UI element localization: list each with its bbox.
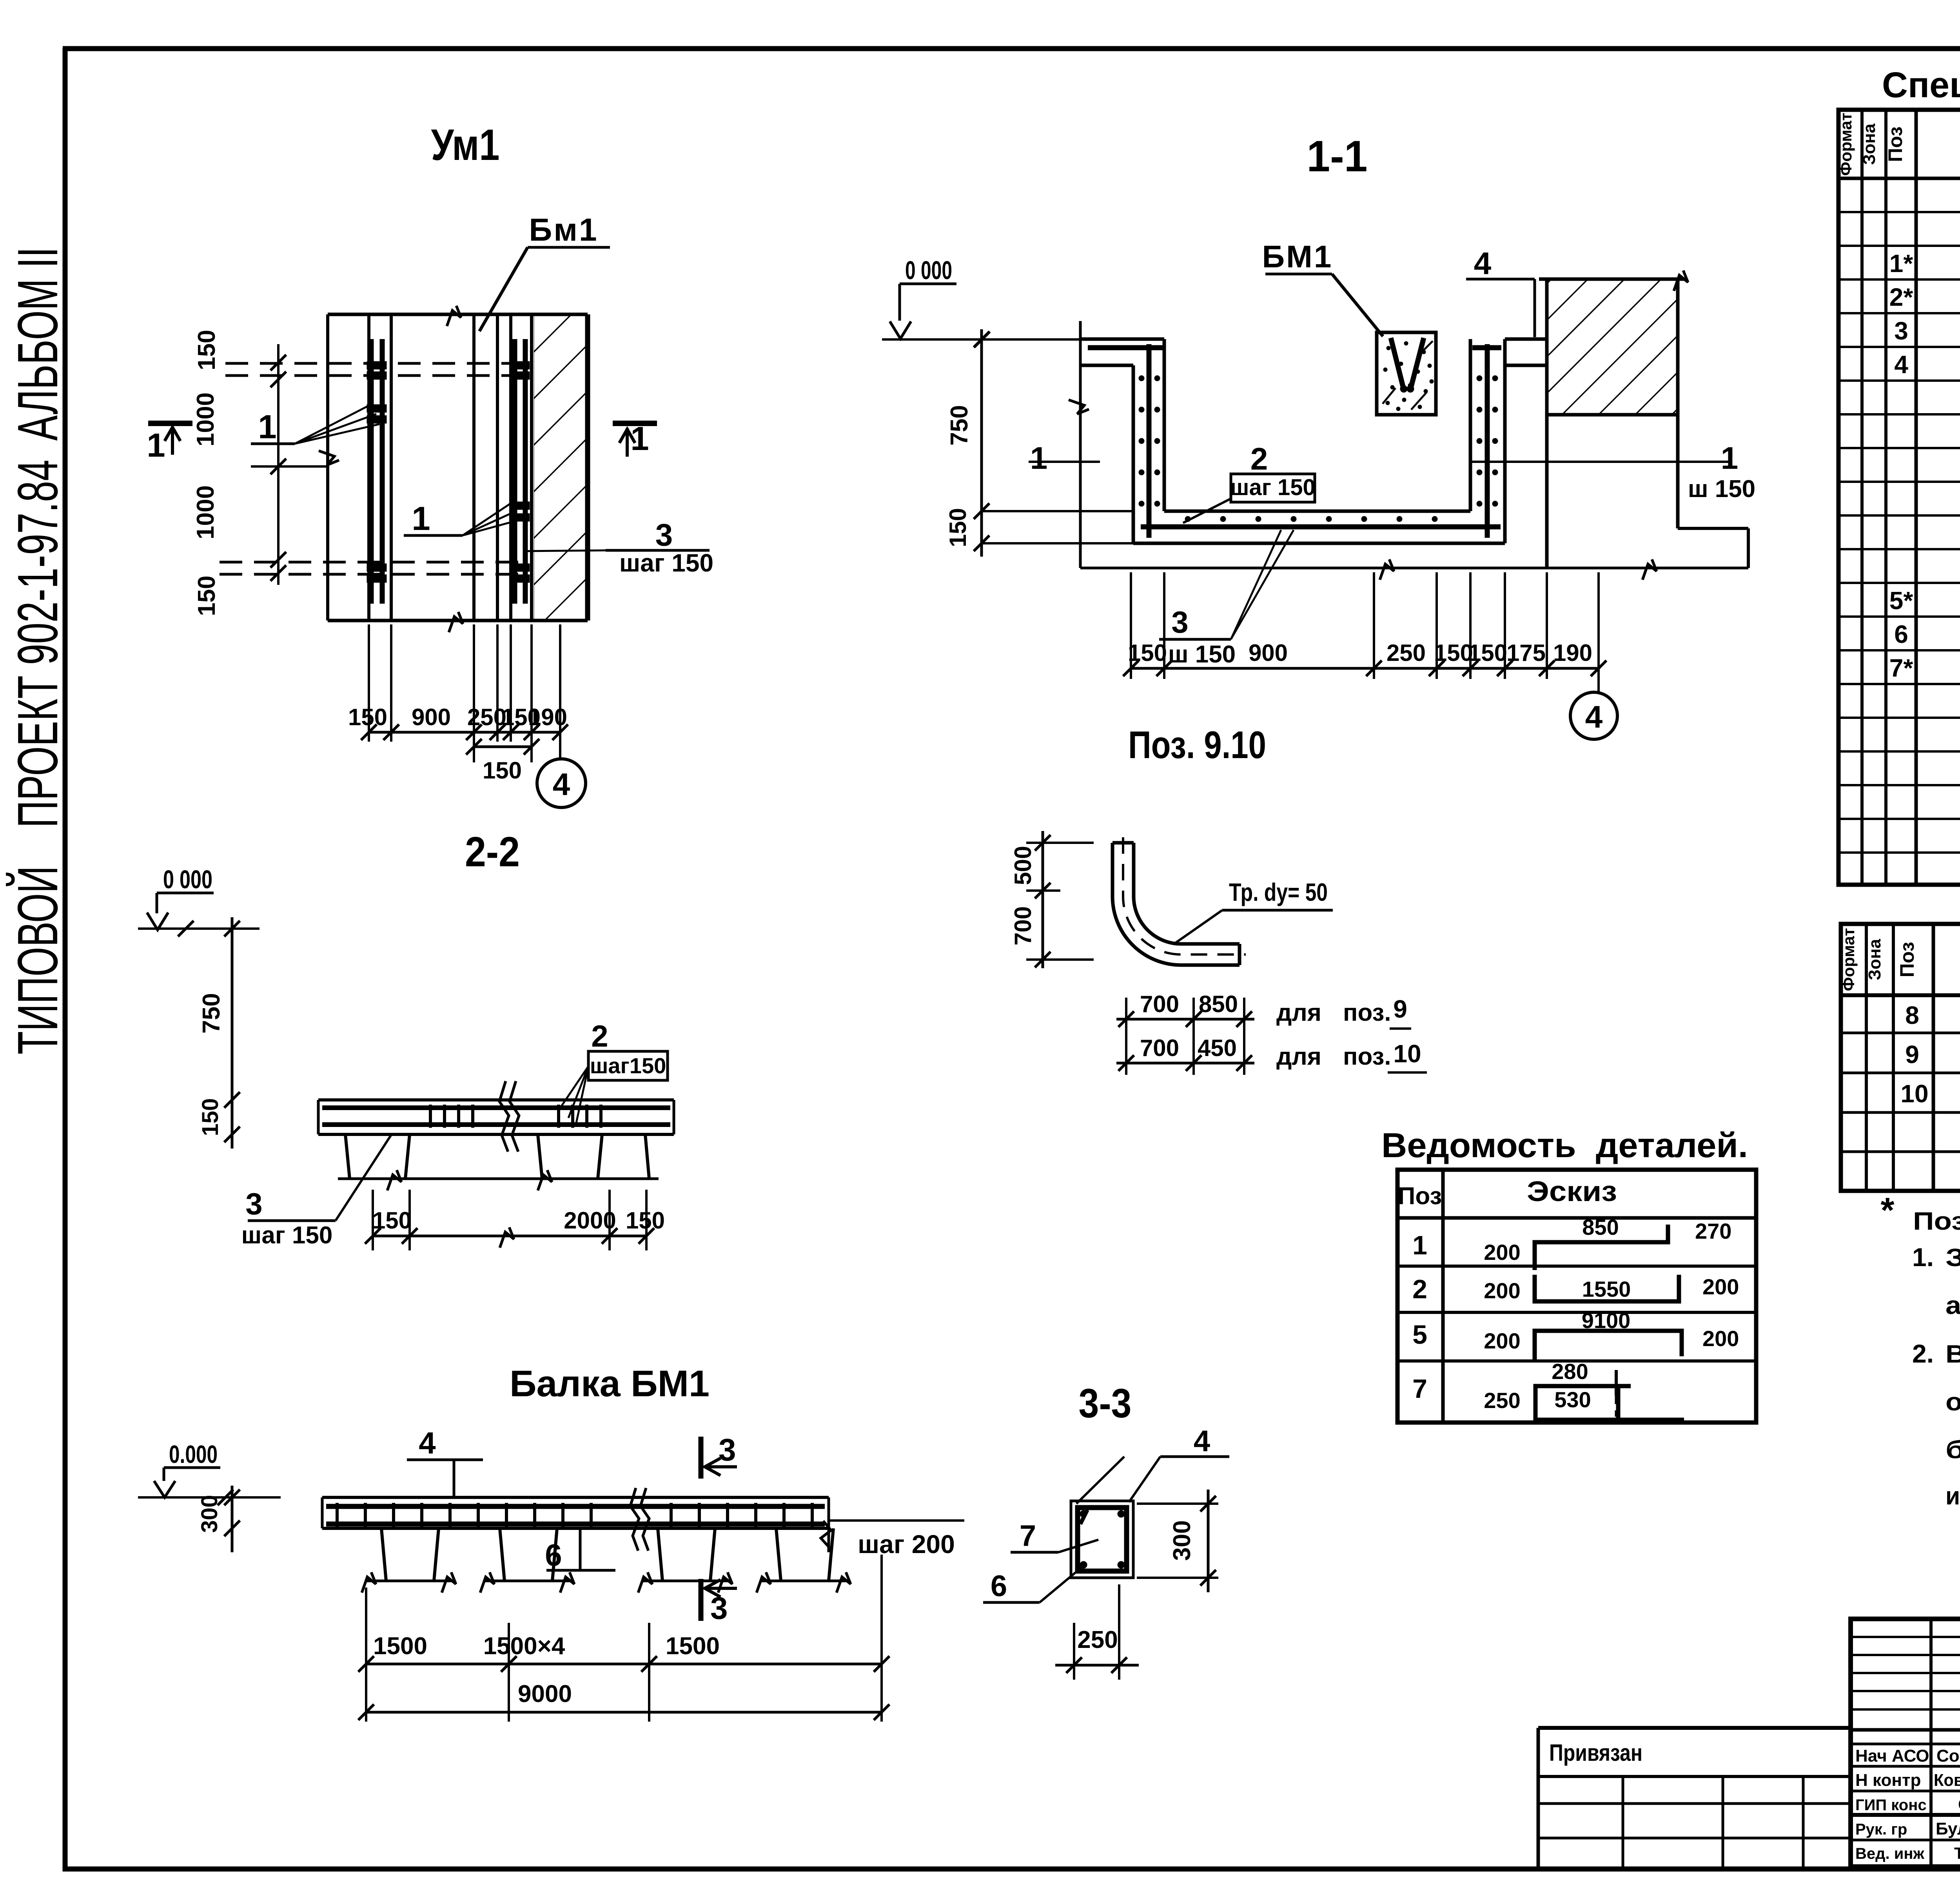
svg-text:150: 150	[193, 330, 220, 370]
svg-text:ш 150: ш 150	[1168, 641, 1236, 668]
svg-text:7: 7	[1020, 1519, 1036, 1553]
svg-text:150: 150	[1128, 640, 1167, 666]
svg-text:Защитный слой бетона для: Защитный слой бетона для рабочей	[1945, 1243, 1960, 1272]
svg-text:10: 10	[1900, 1080, 1928, 1108]
1-1 excavation bottom line	[1080, 567, 1748, 570]
svg-text:1: 1	[412, 500, 430, 537]
Um1 bottom dimension chain 150/900/250/150/190	[368, 624, 370, 742]
svg-text:Ковалинина: Ковалинина	[1934, 1771, 1960, 1790]
svg-text:1500×4: 1500×4	[483, 1633, 565, 1660]
svg-text:200: 200	[1484, 1240, 1520, 1265]
svg-text:200: 200	[1484, 1328, 1520, 1353]
2-2 rebar tie marks	[429, 1105, 432, 1128]
1-1 bottom dimension chain 150/900/250/150/150/175/190	[1130, 572, 1132, 679]
svg-text:Внутреннюю поверхность уча: Внутреннюю поверхность участка УМ1	[1945, 1340, 1960, 1368]
svg-text:Нач АСО: Нач АСО	[1855, 1746, 1929, 1766]
svg-text:200: 200	[1702, 1274, 1739, 1299]
1-1 wall rebar left (pos.1/2)	[1147, 344, 1152, 538]
title block outer frame	[1851, 1619, 1960, 1867]
pipe elbow outline (Tr dy=50)	[1112, 843, 1240, 965]
svg-text:150: 150	[945, 508, 971, 547]
svg-text:7*: 7*	[1889, 654, 1913, 682]
svg-text:ш 150: ш 150	[1688, 475, 1755, 503]
svg-text:Привязан: Привязан	[1549, 1740, 1642, 1766]
beam left dim 300	[231, 1486, 234, 1552]
svg-text:3: 3	[245, 1187, 262, 1221]
svg-text:2-2: 2-2	[465, 828, 520, 875]
Um1 rebar pair left (pos.1)	[369, 339, 374, 604]
svg-text:3: 3	[710, 1591, 728, 1626]
svg-text:шаг 150: шаг 150	[619, 549, 713, 577]
pipe bottom dim row for poz 9	[1125, 998, 1127, 1075]
1-1 section trace line 1...1	[1029, 461, 1100, 463]
svg-text:250: 250	[1387, 640, 1426, 666]
svg-text:1000: 1000	[192, 485, 219, 539]
svg-text:150: 150	[1434, 640, 1473, 666]
Um1 section mark 1 right	[613, 421, 657, 426]
svg-text:4: 4	[553, 767, 570, 802]
svg-text:250: 250	[467, 704, 506, 730]
svg-text:0 000: 0 000	[905, 256, 952, 285]
svg-text:150: 150	[372, 1207, 412, 1234]
beam section mark 3 lower	[699, 1579, 704, 1621]
svg-text:270: 270	[1695, 1219, 1731, 1243]
svg-text:850: 850	[1582, 1215, 1619, 1239]
svg-text:шаг 150: шаг 150	[241, 1222, 333, 1249]
1-1 beam anchor bars	[1391, 338, 1403, 388]
svg-text:1: 1	[147, 427, 165, 464]
svg-text:300: 300	[1169, 1520, 1196, 1560]
3-3 stirrup pos.7	[1078, 1508, 1127, 1571]
svg-text:9: 9	[1393, 995, 1407, 1023]
Um1 plan outline	[328, 313, 588, 316]
svg-text:поз.: поз.	[1343, 1043, 1391, 1070]
svg-text:3-3: 3-3	[1079, 1381, 1132, 1426]
spec table 2 frame	[1841, 924, 1960, 1191]
svg-text:Балка БМ1: Балка БМ1	[510, 1363, 710, 1404]
svg-text:для: для	[1276, 1043, 1321, 1070]
svg-text:6: 6	[545, 1538, 562, 1572]
1-1 left dimension 750/150	[980, 329, 983, 557]
svg-text:150: 150	[483, 757, 522, 784]
svg-text:шаг 200: шаг 200	[858, 1530, 955, 1559]
1-1 left break line	[1079, 321, 1082, 568]
svg-text:Вед. инж: Вед. инж	[1855, 1845, 1925, 1862]
3-3 dim 250	[1073, 1623, 1075, 1680]
svg-text:изоляции 3 м: изоляции 3 м	[1945, 1482, 1960, 1510]
svg-text:900: 900	[1249, 640, 1288, 666]
svg-text:2: 2	[591, 1019, 608, 1053]
svg-text:арматуры 25 мм.: арматуры 25 мм.	[1945, 1291, 1960, 1319]
svg-text:190: 190	[528, 704, 567, 730]
3-3 dim 300	[1137, 1502, 1218, 1505]
svg-text:2: 2	[1412, 1274, 1427, 1304]
svg-text:750: 750	[198, 993, 225, 1033]
2-2 left dimension 750/150	[231, 917, 234, 1149]
title block signature column lines	[1929, 1619, 1933, 1867]
beam end break mark	[821, 1521, 831, 1548]
svg-text:Формат: Формат	[1839, 928, 1858, 991]
svg-text:150: 150	[193, 575, 220, 616]
svg-text:700: 700	[1140, 991, 1179, 1017]
svg-text:9000: 9000	[518, 1680, 572, 1707]
svg-text:7: 7	[1412, 1374, 1427, 1404]
svg-text:ГИП конс: ГИП конс	[1855, 1796, 1927, 1814]
beam dims 1500/1500x4/1500 and 9000	[365, 1623, 367, 1722]
svg-text:250: 250	[1484, 1388, 1520, 1413]
svg-text:4: 4	[1474, 246, 1492, 281]
svg-text:Булатова: Булатова	[1936, 1819, 1960, 1838]
svg-text:Бм1: Бм1	[529, 212, 598, 248]
svg-text:Формат: Формат	[1837, 113, 1855, 176]
beam rib stubs	[381, 1528, 439, 1581]
page frame left border	[63, 48, 68, 1871]
svg-text:Эскиз: Эскиз	[1527, 1176, 1617, 1207]
Um1 sub dimension 150	[473, 742, 475, 762]
svg-text:150: 150	[626, 1207, 665, 1234]
page frame bottom border	[63, 1867, 1960, 1872]
svg-text:Зона: Зона	[1865, 939, 1884, 980]
svg-text:Ум1: Ум1	[431, 120, 500, 169]
2-2 slab rebar lines (pos.2/3)	[322, 1105, 670, 1110]
Um1 dashed slab edge lines (top)	[225, 362, 532, 365]
svg-text:4: 4	[1585, 699, 1603, 734]
pipe elbow dashed centreline	[1123, 837, 1246, 954]
svg-text:Тр. dу= 50: Тр. dу= 50	[1229, 878, 1328, 906]
svg-text:175: 175	[1506, 640, 1546, 666]
2-2 vertical break	[499, 1081, 509, 1152]
svg-text:1: 1	[1721, 441, 1739, 475]
2-2 rib stubs	[345, 1134, 410, 1179]
svg-text:оклеить бризолом за два: оклеить бризолом за два раза на	[1945, 1388, 1960, 1416]
title block small rows upper left	[1851, 1636, 1960, 1638]
svg-text:0.000: 0.000	[169, 1440, 218, 1468]
svg-text:530: 530	[1554, 1387, 1591, 1412]
svg-text:Позиции смотри ведомость: Позиции смотри ведомость деталей	[1913, 1207, 1960, 1235]
svg-text:поз.: поз.	[1343, 999, 1391, 1026]
svg-text:1500: 1500	[373, 1633, 427, 1660]
svg-text:Спецификация на Ум1 и бал: Спецификация на Ум1 и балку Бм1.	[1882, 65, 1960, 105]
svg-text:850: 850	[1199, 991, 1238, 1017]
2-2 bottom dimension 150/2000/150	[372, 1190, 374, 1250]
svg-text:4: 4	[1894, 350, 1908, 379]
svg-text:Поз: Поз	[1896, 942, 1918, 978]
svg-text:Н контр: Н контр	[1855, 1771, 1921, 1790]
Um1 dashed slab edge lines (bottom)	[220, 561, 532, 564]
svg-text:500: 500	[1010, 846, 1036, 885]
svg-text:шаг150: шаг150	[590, 1053, 666, 1078]
Um1 rebar pair right (pos.1)	[512, 339, 517, 604]
1-1 beam Bm1 cross-section (hatched with dots)	[1377, 332, 1436, 415]
svg-text:300: 300	[197, 1495, 222, 1533]
svg-text:1000: 1000	[192, 392, 219, 446]
svg-text:4: 4	[1194, 1424, 1210, 1458]
svg-text:6: 6	[1894, 620, 1908, 648]
svg-text:Зона: Зона	[1860, 123, 1879, 165]
svg-text:0 000: 0 000	[163, 865, 212, 894]
2-2 ground line	[338, 1178, 659, 1180]
3-3 column outline	[1071, 1501, 1133, 1578]
svg-text:700: 700	[1140, 1035, 1179, 1061]
svg-text:450: 450	[1198, 1035, 1237, 1061]
svg-text:для: для	[1276, 999, 1321, 1026]
svg-text:8: 8	[1905, 1001, 1919, 1029]
svg-text:1: 1	[1412, 1230, 1427, 1260]
svg-text:ТИПОВОЙ ПРОЕКТ 902-1-97.84 АЛ: ТИПОВОЙ ПРОЕКТ 902-1-97.84 АЛЬБОМ II	[6, 247, 69, 1054]
svg-text:1.: 1.	[1912, 1243, 1934, 1272]
pipe bottom dim row for poz 10	[1116, 1062, 1254, 1065]
svg-text:280: 280	[1552, 1359, 1588, 1384]
1-1 channel concrete outline	[1080, 338, 1164, 341]
svg-text:Сорокин: Сорокин	[1936, 1746, 1960, 1766]
svg-text:250: 250	[1077, 1626, 1118, 1653]
3-3 corner bar dots	[1080, 1510, 1087, 1517]
svg-text:Ткачук: Ткачук	[1954, 1844, 1960, 1862]
Um1 axis bubble 4	[537, 759, 586, 807]
spec table 1 row lines	[1838, 211, 1960, 213]
svg-text:2.: 2.	[1912, 1339, 1934, 1368]
svg-text:150: 150	[198, 1098, 223, 1136]
svg-text:1-1: 1-1	[1307, 132, 1368, 181]
svg-text:1500: 1500	[666, 1633, 720, 1660]
beam section mark 3 upper	[699, 1437, 704, 1479]
svg-text:2000: 2000	[564, 1207, 616, 1234]
svg-text:1550: 1550	[1582, 1277, 1631, 1301]
svg-text:Обух: Обух	[1958, 1795, 1960, 1814]
svg-text:Ведомость деталей.: Ведомость деталей.	[1381, 1126, 1748, 1165]
svg-text:9: 9	[1905, 1040, 1919, 1069]
svg-text:4: 4	[419, 1426, 436, 1460]
page frame top border	[63, 46, 1960, 51]
Um1 left dimension chain 150/1000/1000/150	[277, 344, 279, 585]
svg-text:Поз: Поз	[1884, 127, 1906, 162]
svg-text:2: 2	[1250, 441, 1268, 476]
svg-text:150: 150	[348, 704, 387, 730]
svg-text:3: 3	[1171, 605, 1188, 639]
svg-text:9100: 9100	[1582, 1308, 1631, 1333]
svg-text:Рук. гр: Рук. гр	[1855, 1821, 1907, 1838]
svg-text:1: 1	[1030, 441, 1048, 475]
1-1 rebar section dots	[1139, 376, 1144, 381]
svg-text:200: 200	[1484, 1278, 1520, 1303]
svg-text:БМ1: БМ1	[1262, 239, 1333, 274]
Um1 section mark 1 left	[148, 421, 192, 426]
1-1 floor main rebar (pos.3)	[1141, 524, 1501, 530]
2-2 slab outline	[318, 1098, 674, 1101]
svg-text:Поз: Поз	[1398, 1183, 1442, 1210]
svg-text:*: *	[1880, 1191, 1894, 1230]
Um1 break marks	[447, 306, 461, 326]
svg-text:5*: 5*	[1889, 586, 1913, 615]
beam mid break	[630, 1488, 639, 1551]
svg-text:200: 200	[1702, 1326, 1739, 1351]
svg-text:900: 900	[412, 704, 451, 730]
svg-text:шаг 150: шаг 150	[1230, 475, 1316, 500]
svg-text:2*: 2*	[1889, 283, 1913, 311]
spec table 1 frame	[1838, 110, 1960, 885]
vedomost table frame	[1397, 1170, 1756, 1423]
svg-text:1: 1	[630, 420, 649, 457]
svg-text:битумной мастике, протяженн: битумной мастике, протяженность	[1945, 1435, 1960, 1464]
svg-text:Поз. 9.10: Поз. 9.10	[1128, 723, 1266, 766]
svg-text:10: 10	[1393, 1040, 1421, 1068]
svg-text:5: 5	[1412, 1320, 1427, 1350]
1-1 wall rebar right	[1485, 344, 1490, 538]
Um1 rebar tie marks	[367, 361, 387, 369]
svg-text:190: 190	[1553, 640, 1592, 666]
svg-text:3: 3	[719, 1432, 736, 1467]
svg-text:6: 6	[991, 1570, 1007, 1603]
beam outline	[322, 1496, 829, 1499]
svg-text:1: 1	[258, 408, 276, 446]
svg-text:3: 3	[1894, 317, 1908, 345]
beam stirrup ticks shag 200	[336, 1503, 339, 1527]
1-1 axis bubble 4	[1570, 692, 1617, 739]
privyazan strip frame	[1538, 1726, 1851, 1730]
svg-text:150: 150	[1468, 640, 1507, 666]
svg-text:700: 700	[1010, 906, 1036, 945]
svg-text:3: 3	[655, 517, 673, 552]
1-1 existing hatched wall	[1547, 279, 1678, 415]
pipe left dims 500/700	[1042, 831, 1044, 968]
Um1 hatched wall zone	[534, 316, 586, 619]
svg-text:1*: 1*	[1889, 249, 1913, 278]
beam longitudinal rebar pos.5/6	[326, 1504, 825, 1509]
svg-text:750: 750	[946, 405, 973, 445]
